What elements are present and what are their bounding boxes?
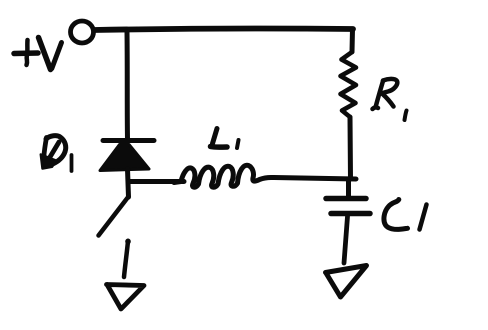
wire to left ground	[124, 241, 128, 277]
resistor R1	[341, 29, 357, 179]
capacitor C1	[326, 179, 370, 263]
wire top	[94, 29, 353, 30]
gate wire diagonal	[99, 197, 129, 236]
diode D1	[100, 141, 154, 198]
label R1	[373, 79, 407, 120]
inductor L1	[174, 165, 274, 187]
label C1	[384, 200, 427, 230]
label L1	[211, 129, 239, 149]
wire L1 to node	[274, 178, 356, 180]
label +V	[14, 38, 62, 70]
terminal +V	[71, 21, 94, 43]
wire anode to L1	[129, 179, 184, 184]
ground left	[107, 285, 145, 310]
ground right	[326, 266, 367, 298]
wire from top to D1	[125, 32, 131, 139]
label D1	[41, 136, 72, 171]
